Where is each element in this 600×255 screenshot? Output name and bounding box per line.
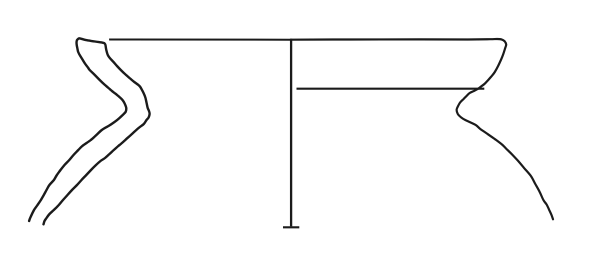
- vessel exterior outline with rim lip and body (right half): [291, 39, 553, 219]
- axis foot tick: [283, 226, 299, 228]
- rim top line (left half): [109, 39, 291, 41]
- neck carination line (right half): [297, 88, 485, 90]
- sherd cross-section profile (left half): [29, 38, 150, 224]
- centre axis line: [290, 39, 292, 227]
